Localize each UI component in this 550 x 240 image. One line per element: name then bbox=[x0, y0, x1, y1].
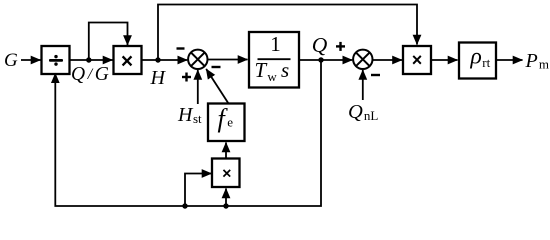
svg-text:Pm: Pm bbox=[525, 50, 550, 72]
svg-text:ρrt: ρrt bbox=[470, 43, 491, 70]
wire: squaring feedback loop over × bbox=[89, 23, 128, 61]
wire: fe output diagonal into S1 bbox=[206, 69, 228, 104]
wire: ρrt output arrow bbox=[496, 59, 523, 61]
svg-text:Q: Q bbox=[312, 33, 328, 57]
svg-text:Tws: Tws bbox=[255, 58, 291, 84]
wire: S1 output to integrator bbox=[207, 59, 247, 61]
sign minus S1 left input bbox=[177, 47, 185, 49]
node Q branch bbox=[318, 57, 323, 62]
divider block U1 ÷ bbox=[42, 46, 70, 74]
wire: S2 output to multiplier U5 bbox=[373, 59, 402, 61]
wire: ×3 output up into fe bbox=[225, 143, 227, 159]
wire: Hst input arrow into S1 bbox=[197, 70, 199, 104]
svg-text:Q/G: Q/G bbox=[71, 64, 111, 85]
node H branch bbox=[155, 57, 160, 62]
sign plus S2 left input bbox=[336, 42, 345, 51]
integrator block U4 1/(Tw s) bbox=[249, 32, 299, 88]
svg-text:×: × bbox=[412, 50, 423, 70]
svg-text:fe: fe bbox=[218, 104, 234, 133]
wire: G input arrow bbox=[21, 59, 41, 61]
wire: integrator output to S2 bbox=[299, 59, 352, 61]
node rail branch to ×3 bottom bbox=[223, 203, 228, 208]
wire: rail into ×3 bottom bbox=[225, 189, 227, 207]
sign minus S1 diagonal input bbox=[212, 66, 221, 68]
summing junction S2 bbox=[353, 50, 372, 69]
node rail branch to ×3 left bbox=[182, 203, 187, 208]
svg-text:QnL: QnL bbox=[348, 101, 378, 123]
block U6 ρrt bbox=[459, 43, 496, 79]
multiplier block U5 × bbox=[403, 46, 431, 74]
sign minus S2 bottom input bbox=[371, 74, 380, 76]
sign plus S1 bottom input bbox=[182, 73, 191, 82]
svg-text:G: G bbox=[4, 50, 18, 71]
node Q/G branch bbox=[86, 57, 91, 62]
block U3 fe bbox=[208, 104, 245, 142]
svg-text:×: × bbox=[222, 166, 231, 183]
wire: × output to summing junction S1 bbox=[142, 59, 188, 61]
wire: ÷ output to × bbox=[70, 59, 113, 61]
multiplier block U2 × bbox=[114, 46, 142, 74]
wire: rail elbow into ×3 left bbox=[185, 174, 212, 207]
summing junction S1 bbox=[188, 50, 207, 69]
wire: QnL input arrow into S2 bbox=[362, 70, 364, 100]
wire: top rail from H to multiplier U5 bbox=[158, 5, 417, 61]
wire: bottom feedback rail from Q to ÷ bbox=[55, 60, 321, 206]
svg-text:H: H bbox=[150, 67, 167, 89]
wire: × output to ρrt bbox=[431, 59, 458, 61]
svg-text:1: 1 bbox=[270, 32, 281, 56]
svg-text:Hst: Hst bbox=[177, 104, 202, 126]
svg-text:×: × bbox=[121, 50, 133, 73]
multiplier block U7 × bbox=[212, 159, 240, 188]
